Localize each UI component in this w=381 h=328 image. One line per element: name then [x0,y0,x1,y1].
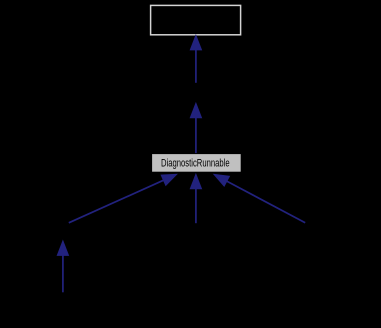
edge: center derived class to DiagnosticRunnable [190,174,201,223]
edge: DiagnosticRunnable to intermediate node (lower vertical arrow) [190,103,201,153]
edge: right derived class to DiagnosticRunnable (diagonal) [214,174,305,222]
edge: left derived class to DiagnosticRunnable (diagonal) [69,174,177,223]
edge: bottom-left grandchild class to left derived class (small vertical arrow) [57,241,68,292]
svg-text:DiagnosticRunnable: DiagnosticRunnable [161,158,230,170]
node: top base-class box (empty / text hidden) [151,5,241,34]
edge: intermediate node to top box (upper vertical arrow) [190,35,201,82]
node: DiagnosticRunnable (current class, grey) [152,154,242,173]
